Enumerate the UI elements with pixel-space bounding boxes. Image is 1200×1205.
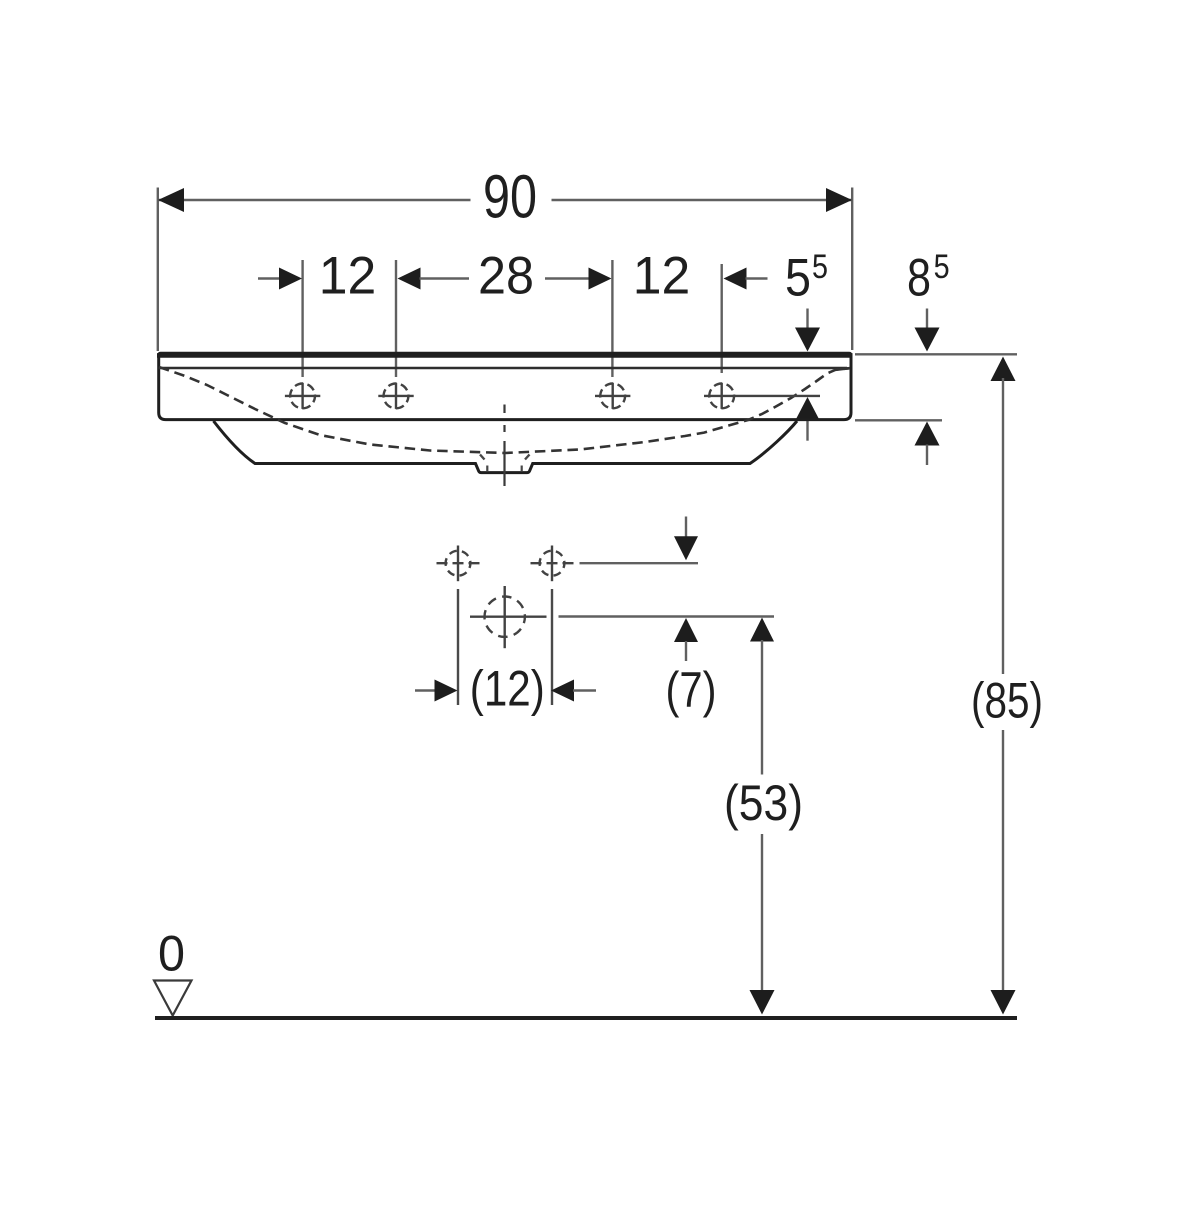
dimension 8.5 vertical: up arrowhead [915, 422, 940, 446]
hole 3 extension line [611, 260, 613, 377]
drain centerline [503, 405, 505, 487]
extension line right (basin underside level) [855, 419, 942, 421]
dimension (53): up arrowhead [750, 618, 774, 642]
dimension 12 (left): outside arrow stem [258, 277, 281, 279]
drain right slanted mark [525, 455, 530, 460]
hole 4 extension line [721, 264, 723, 373]
siphon level line [559, 615, 775, 617]
svg-text:5: 5 [785, 249, 811, 308]
tap hole 1 [285, 383, 320, 409]
svg-text:28: 28 [478, 246, 534, 305]
tap hole 2 [378, 383, 413, 409]
fixing hole level line [580, 562, 699, 564]
siphon hole dashed circle [485, 597, 525, 637]
hole 1 extension line [301, 260, 303, 377]
drain right hidden tick [521, 466, 523, 472]
dimension (85): line upper segment [1002, 378, 1004, 674]
dimension 90: left extension line [157, 188, 159, 352]
extension line top right (basin top level) [855, 353, 1017, 355]
dimension 5.5 vertical: down arrow stem [806, 309, 808, 330]
washbasin top edge (bold) [157, 353, 853, 358]
dimension 5.5 vertical: up arrow stem [806, 420, 808, 441]
svg-text:(85): (85) [971, 673, 1043, 729]
fixing hole right [531, 546, 574, 582]
dimension (12): left arrowhead pointing right [435, 680, 458, 702]
dimension 8.5 vertical: down arrow stem [926, 309, 928, 330]
drain left slanted mark [480, 455, 485, 460]
fixing hole left [437, 546, 480, 582]
svg-text:(12): (12) [470, 661, 545, 717]
dimension 90: right arrowhead [826, 188, 852, 212]
dimension 12 (left): arrowhead pointing right [279, 268, 302, 290]
svg-text:(7): (7) [666, 662, 717, 718]
dimension 5.5 vertical: down arrowhead [795, 328, 820, 352]
dimension 90: line left segment [159, 199, 471, 201]
svg-text:12: 12 [633, 246, 691, 305]
dimension 90: left arrowhead [158, 188, 184, 212]
siphon hole cross horizontal [470, 616, 547, 618]
basin hidden contour final dash [836, 368, 850, 370]
dimension 28: left arrowhead pointing left [398, 268, 421, 290]
svg-text:90: 90 [483, 163, 537, 231]
washbasin slab outline [159, 353, 851, 419]
dimension (7): down arrow stem [685, 517, 687, 538]
dimension (7): up arrowhead [674, 618, 698, 642]
dimension 5.5 vertical: up arrowhead [795, 397, 820, 421]
bowl outline below slab [214, 421, 798, 473]
svg-text:0: 0 [158, 925, 185, 981]
dimension (85): top extension arrow up [991, 357, 1016, 382]
drain left hidden tick [486, 466, 488, 472]
tap hole 3 [595, 383, 630, 409]
dimension (53): bottom arrowhead down [750, 990, 775, 1015]
dimension (7): down arrowhead [674, 536, 698, 560]
svg-text:12: 12 [319, 246, 377, 305]
dimension (85): line lower segment [1002, 730, 1004, 993]
svg-text:5: 5 [812, 248, 828, 286]
dimension (12): right arrowhead pointing left [551, 680, 574, 702]
dimension (12): right arrow stem [573, 689, 596, 691]
floor baseline [155, 1016, 1017, 1020]
dimension 8.5 vertical: down arrowhead [915, 328, 940, 352]
svg-text:8: 8 [907, 249, 931, 308]
zero level triangle [154, 981, 192, 1016]
svg-text:(53): (53) [724, 775, 803, 831]
dimension (53): line lower segment [761, 834, 763, 993]
dimension (12): left arrow stem [415, 689, 437, 691]
dimension 12 (right): arrow stem [746, 277, 768, 279]
basin hidden contour (dashed curve) [159, 367, 850, 453]
dimension 28: right arrowhead pointing right [589, 268, 612, 290]
fixing hole right lower extension [551, 589, 553, 705]
dimension (85): bottom arrowhead down [991, 990, 1016, 1015]
hole 2 extension line [395, 260, 397, 377]
dimension 28: left stem [420, 277, 470, 279]
washbasin inner rim line [159, 367, 848, 370]
siphon hole cross vertical [504, 586, 506, 648]
dimension 90: right extension line [851, 188, 853, 351]
dimension 90: line right segment [552, 199, 852, 201]
svg-text:5: 5 [934, 248, 950, 286]
dimension (7): up arrow stem [685, 641, 687, 661]
dimension 28: right stem [545, 277, 591, 279]
tap hole 4 with pointer line [704, 383, 820, 409]
dimension 8.5 vertical: up arrow stem [926, 445, 928, 466]
dimension 12 (right): arrowhead pointing left [724, 268, 747, 290]
fixing hole left lower extension [457, 589, 459, 705]
dimension (53): line upper segment [761, 640, 763, 775]
